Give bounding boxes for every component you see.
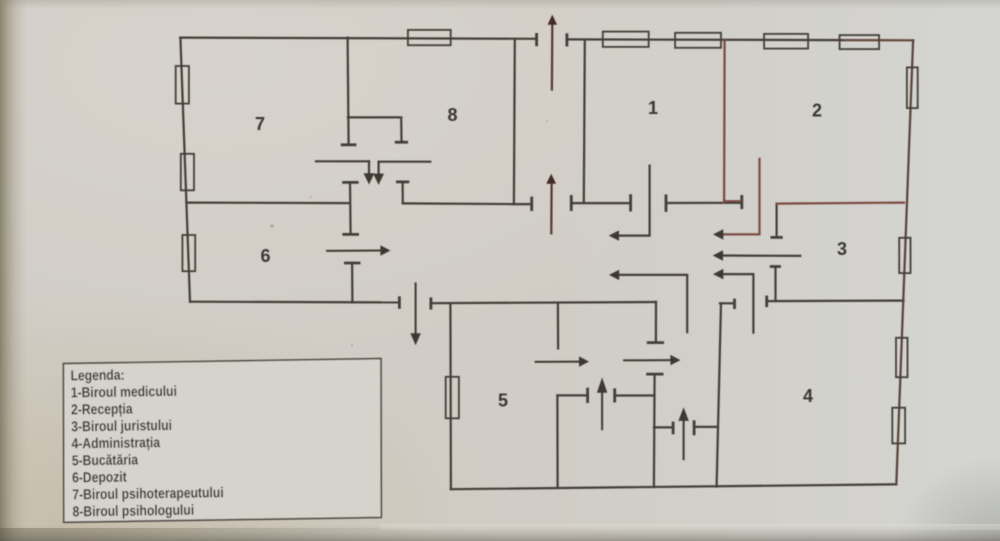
wall bathroom north west seg: [557, 394, 587, 396]
jamb T cap at corridor: [397, 180, 408, 183]
arrowhead kitchen arrow 1 (right): [579, 356, 589, 366]
jamb tick room6-south east end: [398, 298, 401, 308]
wall top-A (rooms 7-8): [180, 38, 536, 39]
jamb tick entry west: [530, 198, 533, 210]
arrow wc up shaft: [683, 422, 685, 460]
jamb tick at 742: [740, 196, 743, 207]
arrowhead hall up: [546, 174, 556, 184]
wall room3 north (red): [777, 203, 904, 204]
jamb lower at 775 stem: [774, 267, 776, 301]
jamb room6 east stem: [351, 263, 353, 302]
arrowhead room1 swing (left): [609, 230, 619, 240]
window R1: [907, 67, 918, 108]
jamb tick entry east: [570, 196, 573, 209]
window R3: [896, 338, 908, 377]
nook wall vertical: [400, 117, 402, 141]
wall divider rooms 7-8: [348, 38, 349, 145]
door leaf down-right: [378, 162, 380, 174]
door lintel east segment: [379, 161, 431, 163]
jamb upper at 776 south cap: [772, 236, 781, 239]
wall bottom outer: [451, 484, 897, 489]
wall stub red at hall: [724, 200, 741, 202]
jamb tick at 734: [733, 300, 736, 308]
arrow long corridor shaft: [723, 254, 801, 257]
window L1: [176, 66, 189, 104]
jamb tick room3 south-west: [765, 297, 768, 306]
cap stub 656 south: [648, 341, 662, 344]
paper speck 4: [351, 344, 354, 347]
jamb tick top-B west end: [566, 35, 569, 45]
jamb tick wc east: [693, 422, 696, 434]
wall room3 south: [767, 300, 904, 303]
svg-text:8-Biroul psihologului: 8-Biroul psihologului: [72, 502, 194, 520]
jamb tick bathroom door east: [613, 390, 616, 401]
arrowhead bathroom up arrow: [597, 377, 607, 392]
wall bathroom north east seg: [615, 394, 654, 396]
svg-text:6: 6: [260, 246, 270, 266]
wall stub east of room8 wall: [514, 203, 532, 205]
arrow entrance up shaft (dark red): [551, 26, 554, 90]
window top-A: [408, 30, 451, 45]
wall bathroom east: [653, 374, 656, 487]
window top-B3: [764, 34, 808, 49]
wall wc north-east of door: [694, 426, 717, 428]
svg-text:7-Biroul psihoterapeutului: 7-Biroul psihoterapeutului: [72, 484, 224, 502]
window top-B1: [603, 32, 649, 47]
nook wall horizontal room 8: [348, 116, 401, 118]
jamb tick hall door east: [665, 196, 668, 211]
svg-text:5: 5: [498, 391, 508, 411]
wall top-B (rooms 1-2): [567, 38, 845, 41]
jamb I-bar north cap: [344, 181, 358, 184]
arrowhead kitchen arrow 2 (right): [670, 355, 680, 365]
door leaf down-left: [368, 161, 370, 173]
arrowhead door leaf left (down): [364, 173, 375, 184]
svg-text:1-Biroul medicului: 1-Biroul medicului: [71, 383, 177, 401]
jamb room6 east cap: [345, 262, 359, 265]
jamb tick hall door west: [629, 196, 632, 211]
wall room5 west: [449, 303, 452, 489]
window R2: [899, 238, 910, 273]
arrowhead hall swing 2 (left): [713, 269, 723, 279]
wall left outer: [180, 38, 190, 302]
wall divider rooms 1-2 (red): [723, 40, 726, 202]
door swing hall leaf 1: [619, 275, 688, 332]
wall top-B2 (east end, brownish): [845, 39, 913, 41]
jamb I-bar corridor west: [349, 183, 352, 235]
wall room4 north stub: [720, 302, 735, 304]
arrowhead room6 arrow (right): [380, 245, 390, 255]
arrowhead corridor down arrow: [410, 333, 420, 345]
jamb T stem: [402, 182, 404, 203]
wall stub below hall at 656: [655, 302, 657, 342]
arrow kitchen 1 shaft: [536, 361, 580, 363]
wall wc north-west of door: [654, 426, 673, 428]
svg-text:8: 8: [447, 105, 457, 125]
window L2: [181, 154, 194, 191]
window top-B2: [675, 33, 721, 48]
wall room6 north: [188, 202, 350, 205]
cap bathroom east wall north: [648, 373, 663, 376]
arrow bathroom up shaft: [601, 393, 603, 429]
wall bathroom west: [556, 395, 558, 487]
wall room6 south: [190, 301, 399, 304]
paper speck 5: [400, 116, 402, 118]
wall right outer: [896, 40, 913, 484]
legend box: [63, 359, 381, 523]
cap nook south end: [396, 141, 406, 144]
jamb tick wc west: [672, 423, 675, 433]
jamb tick top-A east end: [535, 34, 538, 44]
svg-text:2: 2: [812, 101, 822, 121]
svg-text:6-Depozit: 6-Depozit: [72, 469, 127, 486]
arrow corridor down shaft: [415, 283, 417, 334]
arrowhead entrance up: [548, 15, 557, 25]
jamb tick corridor-south west end: [429, 299, 432, 308]
arrowhead corridor long arrow (left): [713, 250, 723, 260]
wall kitchen divider stub: [557, 304, 559, 349]
svg-text:5-Bucătăria: 5-Bucătăria: [72, 451, 139, 468]
door swing room2 leaf (red): [723, 159, 759, 235]
window top-B4: [840, 35, 880, 49]
wall hall north east part: [666, 202, 742, 204]
paper speck 1: [270, 224, 273, 227]
jamb tick bathroom door west: [586, 389, 589, 402]
arrowhead door leaf right (down): [373, 174, 384, 185]
wall hall north: [571, 202, 630, 204]
arrow kitchen 2 shaft: [624, 359, 671, 361]
svg-text:4: 4: [803, 386, 813, 406]
svg-text:1: 1: [648, 98, 658, 118]
door lintel west segment: [316, 160, 369, 162]
wall room8 east: [513, 39, 516, 204]
paper speck 3: [546, 120, 548, 122]
door swing room1 leaf: [619, 166, 650, 236]
jamb upper at 776 stem: [775, 204, 777, 237]
jamb I-bar south cap: [344, 233, 358, 236]
svg-text:3: 3: [837, 239, 847, 259]
wall corridor north west part: [403, 202, 514, 205]
window R4: [892, 408, 905, 444]
jamb lower at 775 north cap: [771, 265, 779, 268]
svg-text:3-Biroul juristului: 3-Biroul juristului: [71, 417, 172, 435]
window room5 west wall: [446, 377, 459, 419]
cap divider 7-8 south end: [342, 143, 355, 146]
arrowhead room2 swing (left): [713, 229, 723, 239]
svg-text:7: 7: [255, 114, 265, 134]
arrowhead wc up arrow: [678, 407, 688, 421]
arrow hall up shaft (dark red): [550, 183, 552, 233]
arrowhead hall swing 1 (left): [609, 270, 619, 280]
wall corridor south / room5 north: [431, 302, 656, 303]
arrow room6 shaft: [327, 250, 381, 252]
wall room4 west: [717, 303, 721, 486]
door swing hall leaf 2: [723, 274, 754, 333]
svg-text:4-Administrația: 4-Administrația: [71, 434, 160, 452]
svg-text:Legenda:: Legenda:: [70, 367, 124, 384]
wall room1 west: [584, 40, 585, 203]
paper speck 2: [310, 196, 312, 198]
window L3: [182, 235, 195, 271]
svg-text:2-Recepția: 2-Recepția: [71, 401, 133, 418]
